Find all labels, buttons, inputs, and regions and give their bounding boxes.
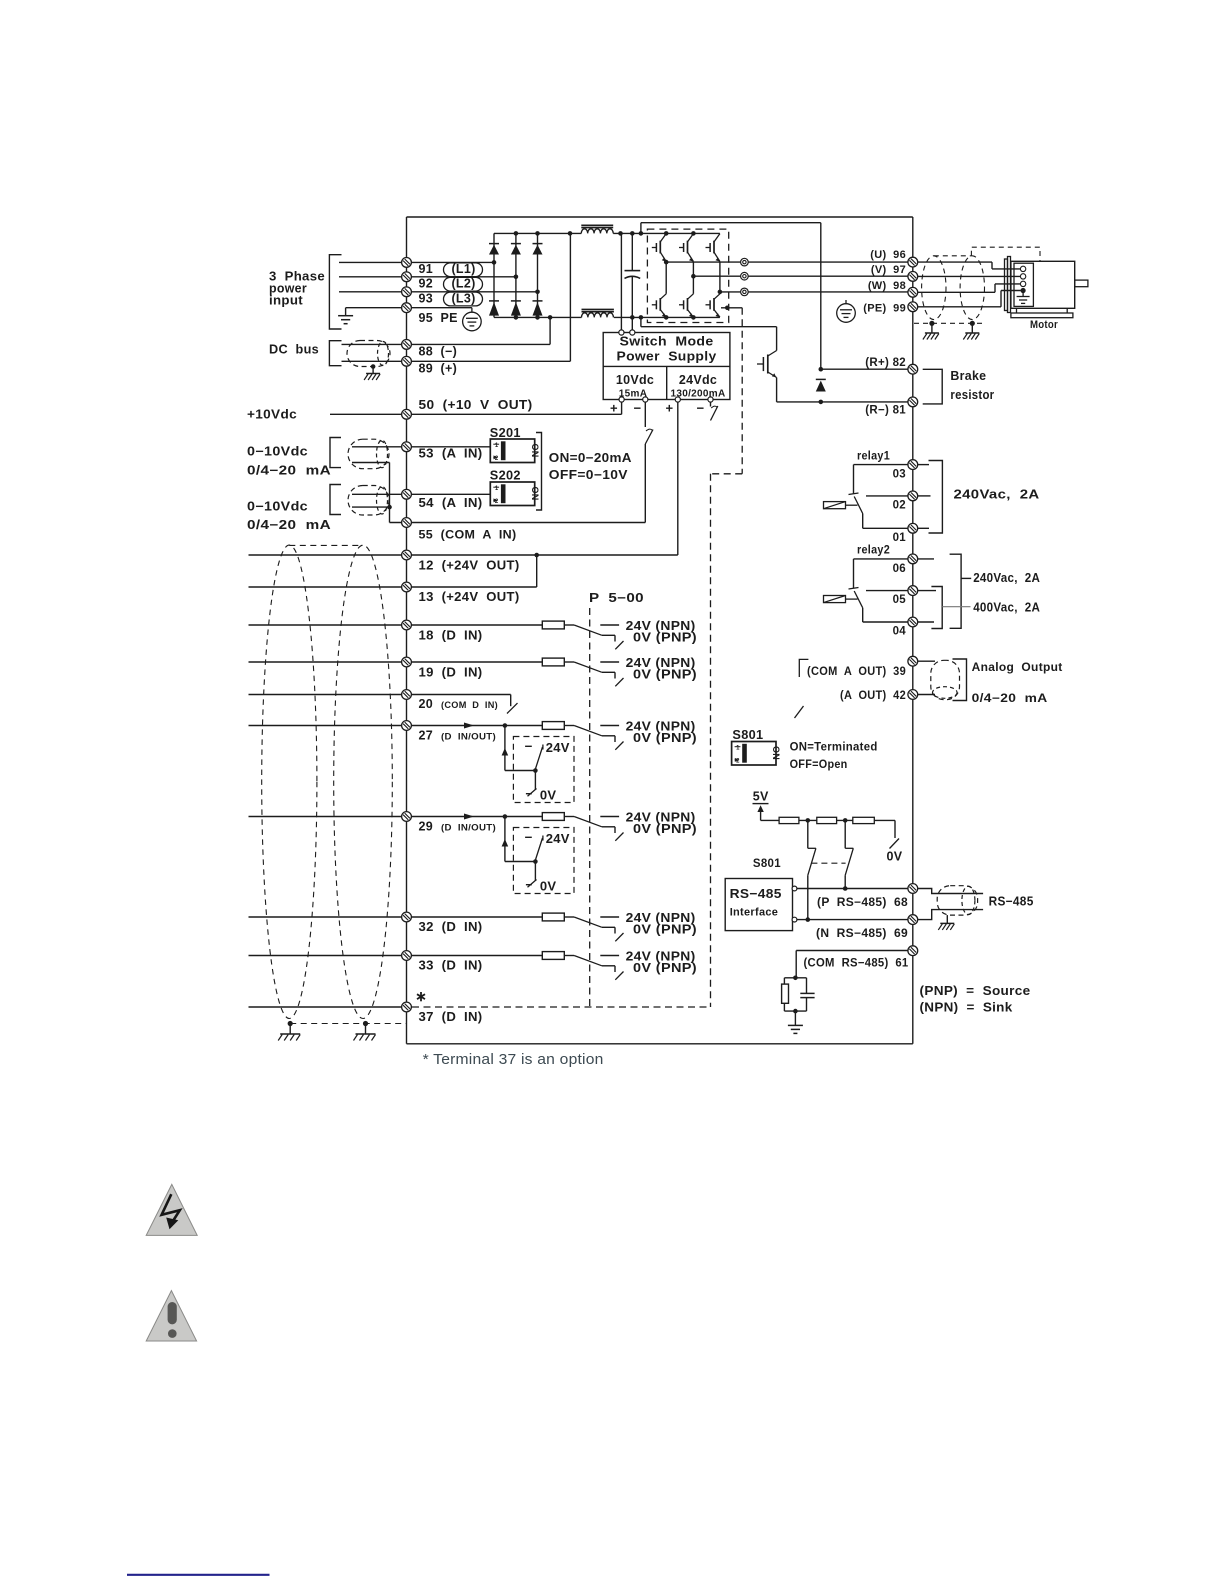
terminal 02 (866, 495, 908, 497)
wire DC- to terminal 88 (342, 343, 551, 345)
motor base (1016, 308, 1018, 313)
node phase W (719, 262, 721, 294)
svg-text:20: 20 (419, 697, 434, 711)
shield ground node 2 (363, 1021, 368, 1026)
diode D5 (511, 301, 521, 316)
digital input 32 network (542, 913, 564, 921)
IGBT U3 bottom (706, 294, 720, 317)
stub 06 (918, 558, 935, 560)
terminal 82 (908, 364, 918, 374)
svg-text:0V (PNP): 0V (PNP) (633, 731, 697, 745)
drive enclosure outline (406, 217, 408, 1044)
dashed S801 link (811, 862, 845, 864)
svg-text:0/4−20 mA: 0/4−20 mA (247, 464, 331, 478)
svg-text:P 5−00: P 5−00 (589, 591, 644, 605)
DIP switch S202 (490, 482, 540, 506)
svg-text:54 (A IN): 54 (A IN) (419, 496, 483, 510)
svg-text:RS−485: RS−485 (989, 895, 1034, 909)
svg-text:Motor: Motor (1030, 319, 1058, 331)
resistor R termination 3 (837, 819, 853, 821)
terminal 99 (908, 302, 918, 312)
diode D6 (533, 301, 543, 316)
shield junction DC bus (371, 364, 376, 369)
wire terminal 19 row (249, 661, 543, 663)
wire terminal 33 row (249, 955, 543, 957)
terminal 92 (402, 272, 412, 282)
terminal 19 (402, 657, 412, 667)
svg-text:S801: S801 (732, 728, 763, 742)
shielded cable analog input 53 (348, 439, 389, 469)
coil relay2 (824, 596, 846, 603)
wire terminal 20 row (249, 694, 511, 696)
wire U to motor (913, 261, 992, 263)
svg-text:DC bus: DC bus (269, 343, 319, 357)
terminal 88 (402, 340, 412, 350)
node phase U (665, 262, 667, 294)
svg-text:0/4−20 mA: 0/4−20 mA (972, 693, 1048, 705)
interface pin N (792, 917, 797, 922)
wire phase V to terminal 97 (748, 275, 913, 277)
S801 termination switch 1 (807, 820, 809, 848)
terminal 61 (908, 946, 918, 956)
svg-text:33 (D IN): 33 (D IN) (419, 959, 483, 973)
wire to 0V switch (874, 819, 895, 821)
svg-text:ON=Terminated: ON=Terminated (790, 742, 878, 754)
svg-text:(L3): (L3) (451, 291, 475, 305)
wire terminal 13 row (249, 586, 537, 588)
IGBT inverter dashed box (647, 229, 728, 322)
phase output wires to connectors (666, 261, 740, 263)
analog out left mark (799, 659, 808, 677)
wire 88 riser (549, 317, 551, 344)
shielded cable analog out (931, 660, 960, 699)
terminal 98 (908, 287, 918, 297)
svg-text:13 (+24V OUT): 13 (+24V OUT) (419, 590, 520, 604)
coil relay1 (824, 502, 846, 509)
ground shield 1 (278, 1034, 300, 1041)
svg-text:(PE) 99: (PE) 99 (863, 303, 906, 315)
svg-text:(A OUT) 42: (A OUT) 42 (840, 690, 906, 702)
wire 89 riser (569, 233, 571, 361)
switch 24V- output (710, 402, 712, 406)
terminal 18 (402, 620, 412, 630)
node phase V (692, 262, 694, 294)
wire terminal 27 row (249, 725, 543, 727)
svg-text:0V (PNP): 0V (PNP) (633, 923, 697, 937)
bracket analog input 54 (330, 485, 341, 515)
wire terminal 12 row (249, 554, 678, 556)
terminal 03 (854, 464, 909, 466)
wire L1 to terminal 91 (339, 261, 494, 263)
motor shaft (1075, 280, 1088, 287)
svg-text:(PNP) = Source: (PNP) = Source (920, 983, 1031, 998)
wire L2 to terminal 92 (339, 276, 516, 278)
control cable shield ellipse 1 (262, 545, 317, 1018)
svg-text:50 (+10 V OUT): 50 (+10 V OUT) (419, 398, 533, 412)
digital input 18 network (542, 621, 564, 629)
svg-text:88 (−): 88 (−) (419, 345, 458, 359)
terminal 91 (402, 258, 412, 268)
IGBT U2 top (679, 234, 693, 262)
terminal 12 (402, 550, 412, 560)
bracket analog out (953, 659, 967, 701)
bracket 3-phase input (329, 255, 341, 329)
svg-text:(COM RS−485) 61: (COM RS−485) 61 (804, 958, 909, 970)
svg-text:1: 1 (495, 486, 499, 492)
terminal 37 (402, 1002, 412, 1012)
rectifier top bus DC+ (494, 232, 581, 234)
svg-text:0V: 0V (540, 788, 557, 803)
DIP switch S201 (490, 439, 540, 463)
terminal 39 (908, 656, 918, 666)
RC network to ground (793, 976, 798, 981)
svg-text:92: 92 (419, 277, 434, 291)
ground DC bus shield (364, 374, 380, 381)
svg-text:ON=0−20mA: ON=0−20mA (549, 451, 632, 465)
svg-text:+: + (666, 401, 674, 416)
wire P RS-485 to terminal 68 (797, 888, 908, 890)
svg-text:02: 02 (893, 500, 906, 512)
SMPS output pins (619, 397, 624, 402)
inductor DC+ (581, 224, 613, 226)
svg-text:24Vdc: 24Vdc (679, 373, 717, 387)
ground motor internal (1022, 291, 1024, 297)
svg-text:5V: 5V (753, 790, 769, 804)
terminal 96 (908, 257, 918, 267)
wire brake R- (777, 401, 908, 403)
terminal 32 (402, 912, 412, 922)
wire phase W to terminal 98 (748, 291, 913, 293)
svg-text:Power Supply: Power Supply (617, 350, 717, 364)
terminal 33 (402, 951, 412, 961)
svg-text:OFF=0−10V: OFF=0−10V (549, 468, 628, 482)
svg-text:input: input (269, 294, 304, 308)
svg-text:89 (+): 89 (+) (419, 362, 458, 376)
svg-text:Analog Output: Analog Output (972, 662, 1063, 674)
svg-text:(V) 97: (V) 97 (871, 264, 906, 276)
terminal 05 (866, 590, 908, 592)
wire analog 53 common (352, 462, 390, 464)
bracket relay2 outer (950, 554, 962, 628)
svg-text:S202: S202 (490, 469, 521, 483)
terminal 29 in/out switch box (464, 814, 574, 894)
svg-text:(NPN) = Sink: (NPN) = Sink (920, 1000, 1013, 1015)
svg-text:Switch Mode: Switch Mode (620, 335, 714, 349)
svg-text:(P RS−485) 68: (P RS−485) 68 (817, 897, 908, 909)
svg-text:400Vac, 2A: 400Vac, 2A (973, 601, 1040, 615)
terminal 81 (908, 397, 918, 407)
diode D1 (489, 244, 499, 255)
shielded cable DC bus (347, 341, 390, 367)
bracket DC bus (329, 341, 341, 366)
dashed shield bottom link (914, 322, 986, 324)
rectifier legs (493, 233, 495, 317)
svg-text:32 (D IN): 32 (D IN) (419, 920, 483, 934)
warning triangle exclamation (146, 1291, 196, 1341)
svg-text:18 (D IN): 18 (D IN) (419, 629, 483, 643)
svg-text:(R−) 81: (R−) 81 (865, 405, 906, 417)
terminal 50 (402, 409, 412, 419)
svg-text:Interface: Interface (730, 907, 779, 919)
phase connector U (741, 258, 749, 266)
box RS-485 interface (725, 879, 792, 931)
svg-text:95 PE: 95 PE (419, 311, 458, 325)
wire analog common to terminal 55 (389, 463, 391, 523)
svg-text:(COM D IN): (COM D IN) (441, 700, 498, 711)
svg-text:ON: ON (530, 444, 540, 458)
ground RC (788, 1025, 803, 1033)
svg-text:53 (A IN): 53 (A IN) (419, 447, 483, 461)
resistor R termination 2 (799, 819, 817, 821)
stub 03 (918, 464, 930, 466)
bracket S201/S202 (536, 433, 542, 511)
svg-text:S801: S801 (753, 858, 781, 870)
interface pin P (792, 886, 797, 891)
ground motor shield 2 (963, 333, 979, 340)
wire +10Vdc to terminal 50 (330, 413, 622, 415)
svg-text:03: 03 (893, 469, 906, 481)
svg-text:0V: 0V (540, 879, 557, 894)
motor PE node (1021, 288, 1026, 293)
wire brake R+ (821, 368, 908, 370)
terminal 93 (402, 287, 412, 297)
phase connector V (741, 272, 749, 280)
svg-text:+: + (610, 401, 618, 416)
transistor brake chopper (757, 363, 763, 365)
svg-text:01: 01 (893, 532, 907, 544)
label asterisk (417, 992, 425, 1001)
svg-text:37 (D IN): 37 (D IN) (419, 1010, 483, 1024)
svg-text:06: 06 (893, 563, 906, 575)
terminal 04 (863, 621, 908, 623)
svg-text:(W) 98: (W) 98 (868, 280, 906, 292)
svg-text:240Vac, 2A: 240Vac, 2A (954, 488, 1040, 502)
shield link dashed bottom (290, 1023, 406, 1025)
wire W to motor (913, 291, 995, 293)
svg-text:0V: 0V (887, 850, 903, 864)
S801 termination switch 2 (844, 820, 846, 848)
bracket relay1 (929, 461, 943, 534)
svg-text:27: 27 (419, 729, 434, 743)
terminal 54 (402, 489, 412, 499)
terminal 95 (402, 303, 412, 313)
warning triangle high voltage (146, 1184, 197, 1235)
wire 10V- to terminal 55 with switch (644, 402, 646, 427)
PE earth symbol 95 (471, 308, 473, 312)
terminal 06 (854, 558, 909, 560)
svg-text:ON: ON (530, 487, 540, 501)
ground 3-phase input (345, 308, 347, 316)
svg-text:relay2: relay2 (857, 545, 890, 557)
svg-text:0V (PNP): 0V (PNP) (633, 668, 697, 682)
svg-text:S201: S201 (490, 426, 521, 440)
SMPS input pins (619, 330, 624, 335)
svg-text:29: 29 (419, 820, 434, 834)
motor cable shield ellipse 1 (922, 256, 946, 320)
wire V to motor (913, 275, 1021, 277)
safe stop tap (721, 307, 742, 309)
terminal 55 (402, 518, 412, 528)
svg-text:−: − (697, 401, 705, 416)
wire PE to motor (913, 306, 1001, 308)
stub 05 (918, 590, 937, 592)
stub 04 (918, 621, 935, 623)
IGBT U3 top (706, 234, 720, 262)
bracket relay2 inner (931, 587, 942, 629)
IGBT U1 bottom (652, 294, 666, 317)
wire 24V+ to terminal 12 (677, 402, 679, 555)
terminal 42 (908, 690, 918, 700)
junction dots rectifier (514, 231, 519, 236)
svg-text:(L1): (L1) (451, 262, 475, 276)
shield ground node motor 2 (970, 321, 975, 326)
svg-text:1: 1 (495, 443, 499, 449)
terminal 27 in/out switch box (464, 723, 574, 803)
motor body (1011, 261, 1075, 308)
wire L3 to terminal 93 (339, 291, 538, 293)
wire terminal 32 row (249, 916, 543, 918)
ground motor shield 1 (923, 333, 939, 340)
svg-text:24V: 24V (546, 831, 570, 846)
box Switch Mode Power Supply (603, 333, 730, 400)
stub 39 (918, 660, 936, 662)
dashed line P 5-00 (589, 608, 591, 1007)
svg-text:0/4−20 mA: 0/4−20 mA (247, 518, 331, 532)
RS-485 external cable (918, 889, 984, 894)
svg-text:0V (PNP): 0V (PNP) (633, 631, 697, 645)
digital input 19 network (542, 658, 564, 666)
label 240Vac 2A relay2 (961, 577, 971, 579)
svg-text:19 (D IN): 19 (D IN) (419, 666, 483, 680)
diode D2 (511, 244, 521, 255)
shield link dashed top (289, 544, 363, 546)
inductor DC- (582, 308, 614, 310)
svg-text:240Vac, 2A: 240Vac, 2A (973, 571, 1040, 585)
svg-text:−: − (634, 401, 642, 416)
stub 42 (918, 694, 936, 696)
IGBT U2 bottom (679, 294, 693, 317)
svg-text:91: 91 (419, 262, 434, 276)
motor cable shield ellipse 2 (960, 256, 984, 320)
phase connector W (741, 288, 749, 296)
wire PE to terminal 95 (346, 307, 472, 309)
terminal 01 (863, 527, 908, 529)
digital input 27 network (542, 722, 564, 730)
RS-485 cable shield ground (946, 915, 948, 923)
resistor R termination 1 (779, 817, 799, 823)
diode D3 (533, 244, 543, 255)
svg-text:OFF=Open: OFF=Open (790, 759, 848, 771)
svg-text:(R+) 82: (R+) 82 (865, 357, 906, 369)
svg-text:0−10Vdc: 0−10Vdc (247, 500, 308, 514)
diode brake (816, 379, 826, 391)
terminal 97 (908, 272, 918, 282)
terminal 13 (402, 582, 412, 592)
capacitor DC link (625, 270, 641, 272)
svg-text:04: 04 (893, 626, 907, 638)
svg-text:resistor: resistor (950, 388, 994, 402)
svg-text:(N RS−485) 69: (N RS−485) 69 (816, 928, 908, 940)
svg-text:(L2): (L2) (451, 277, 475, 291)
svg-text:24V: 24V (546, 740, 570, 755)
wire phase U to terminal 96 (748, 261, 913, 263)
svg-text:0V (PNP): 0V (PNP) (633, 961, 697, 975)
wire terminal 18 row (249, 624, 543, 626)
rectifier bottom bus DC- (494, 316, 582, 318)
5V feed arrow (760, 807, 762, 820)
shielded cable analog input 54 (348, 486, 389, 516)
terminal 29 (402, 812, 412, 822)
terminal 68 (908, 884, 918, 894)
svg-text:12 (+24V OUT): 12 (+24V OUT) (419, 559, 520, 573)
svg-text:(D IN/OUT): (D IN/OUT) (441, 823, 496, 834)
footer rule (127, 1574, 270, 1576)
wire N RS-485 to terminal 69 (797, 919, 908, 921)
svg-text:(U) 96: (U) 96 (870, 249, 906, 261)
label 400Vac 2A relay2 (942, 606, 970, 608)
PE earth symbol 99 (837, 304, 856, 323)
SMPS feeder 2 with DC link capacitor (631, 233, 633, 270)
SMPS feeder 1 (620, 233, 622, 330)
wire DC+ to terminal 89 (342, 360, 571, 362)
svg-text:ON: ON (771, 746, 781, 760)
junction dots IGBT bus (664, 231, 669, 236)
control cable shield ellipse 2 (334, 545, 393, 1018)
stub 02 (918, 495, 931, 497)
motor terminal box (1014, 263, 1033, 306)
svg-text:55 (COM A IN): 55 (COM A IN) (419, 530, 517, 542)
wire inner top DC+ (640, 223, 642, 234)
wire terminal 37 row (249, 1006, 413, 1008)
wire COM RS-485 to terminal 61 (796, 950, 908, 952)
bracket brake resistor (923, 369, 943, 404)
svg-text:10Vdc: 10Vdc (616, 373, 654, 387)
wire analog 53 (352, 446, 490, 448)
shield ground node 1 (288, 1021, 293, 1026)
bracket analog input 53 (330, 438, 341, 468)
svg-text:(COM A OUT) 39: (COM A OUT) 39 (807, 666, 906, 678)
wire analog 54 (352, 493, 490, 495)
svg-text:+10Vdc: +10Vdc (247, 408, 297, 422)
wire terminal 29 row (249, 816, 543, 818)
svg-text:RS−485: RS−485 (730, 886, 782, 901)
svg-text:05: 05 (893, 594, 907, 606)
wire DC- extension to brake chopper (640, 317, 642, 326)
svg-text:0V (PNP): 0V (PNP) (633, 822, 697, 836)
shield ground node motor 1 (929, 321, 934, 326)
terminal 69 (908, 915, 918, 925)
terminal 53 (402, 442, 412, 452)
IGBT U1 top (652, 234, 666, 262)
dashed shield link to motor (934, 255, 972, 257)
stub 01 (918, 527, 930, 529)
terminal 20 (402, 690, 412, 700)
wire analog 54 common (352, 506, 390, 508)
dashed safe-stop path to terminal 37 (741, 308, 743, 474)
svg-text:(D IN/OUT): (D IN/OUT) (441, 732, 496, 743)
svg-text:0−10Vdc: 0−10Vdc (247, 445, 308, 459)
diode D4 (489, 301, 499, 316)
motor gland plate (1005, 259, 1008, 311)
svg-text:93: 93 (419, 291, 434, 305)
svg-text:* Terminal 37 is an option: * Terminal 37 is an option (423, 1052, 604, 1068)
digital input 29 network (542, 813, 564, 821)
ground shield 2 (354, 1034, 376, 1041)
svg-text:Brake: Brake (950, 369, 986, 383)
terminal 89 (402, 356, 412, 366)
DIP switch S801 (732, 742, 782, 766)
motor terminals (1020, 266, 1025, 271)
